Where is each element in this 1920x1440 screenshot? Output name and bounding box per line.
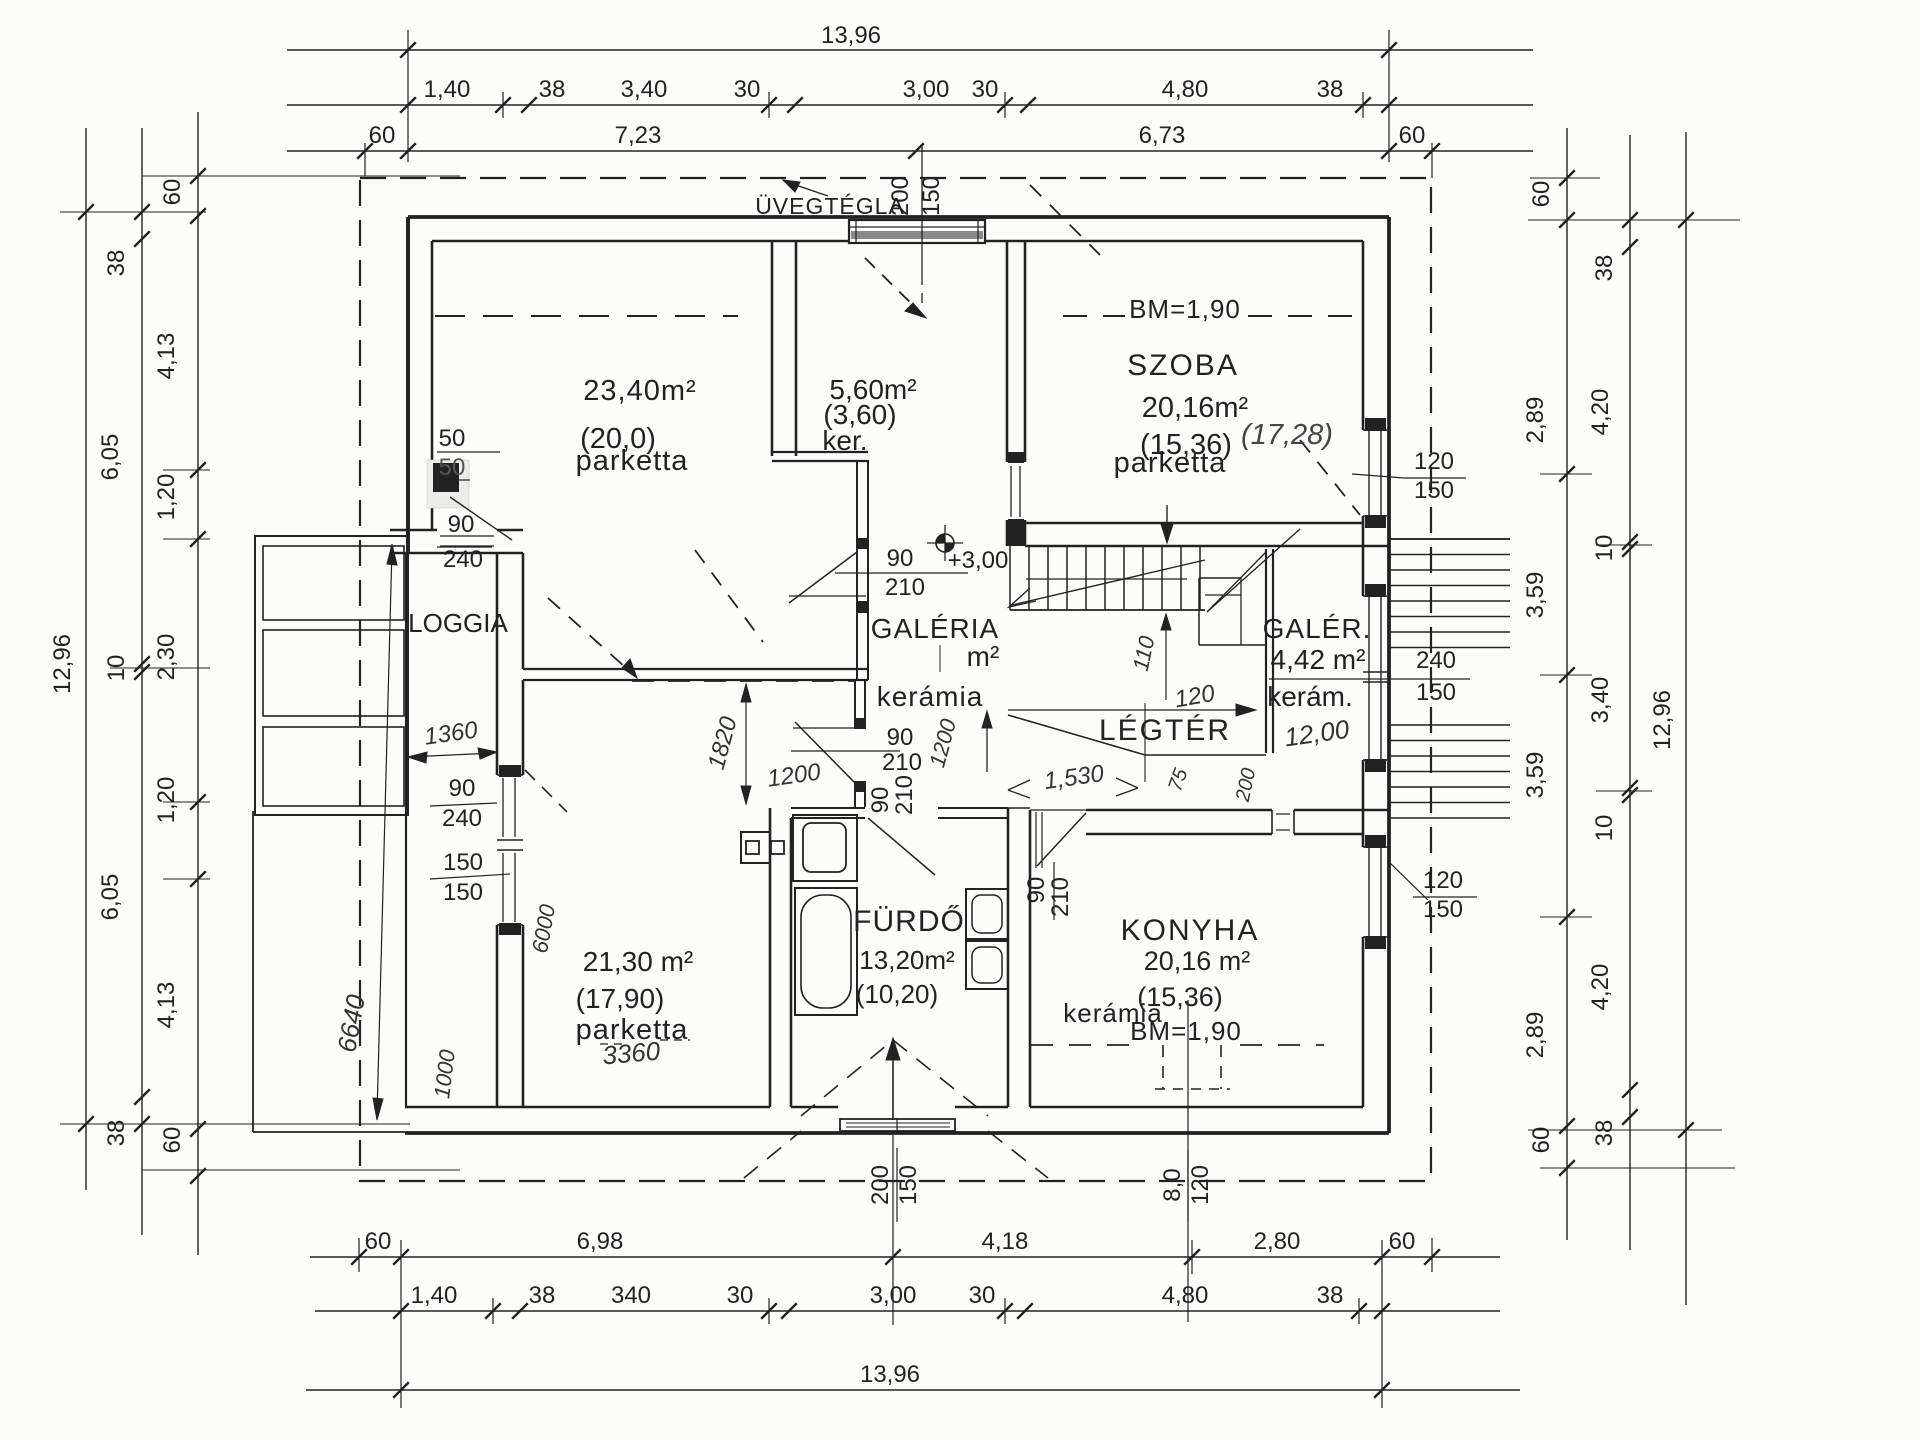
svg-text:1,40: 1,40 (411, 1282, 458, 1309)
dashed bm line szoba (1063, 315, 1352, 317)
konyha west wall (1008, 808, 1030, 1107)
svg-text:6,05: 6,05 (97, 434, 124, 481)
right chain 60/2,89/3,59/3,59/2,89/60 (1522, 128, 1575, 1240)
svg-text:4,20: 4,20 (1587, 964, 1614, 1011)
svg-text:60: 60 (1389, 1228, 1416, 1255)
svg-text:7,23: 7,23 (615, 122, 662, 149)
corridor west wall (772, 241, 868, 461)
door swing galeria lower (791, 722, 900, 785)
svg-text:3,59: 3,59 (1522, 572, 1549, 619)
uvegtegla label (755, 180, 905, 219)
svg-text:kerám.: kerám. (1267, 681, 1353, 712)
svg-text:3,40: 3,40 (1587, 677, 1614, 724)
svg-text:13,96: 13,96 (821, 22, 881, 49)
label 150/150 room21 window (430, 849, 510, 906)
svg-text:3,59: 3,59 (1522, 752, 1549, 799)
konyha door swing (1036, 812, 1086, 868)
svg-text:3,00: 3,00 (903, 76, 950, 103)
svg-text:4,18: 4,18 (982, 1228, 1029, 1255)
door 90/240 loggia wall (503, 778, 515, 837)
svg-text:150: 150 (1423, 896, 1463, 923)
entrance arrow (886, 1038, 900, 1120)
svg-text:ker.: ker. (822, 425, 867, 456)
hw 3360 (600, 1036, 690, 1071)
svg-text:13,96: 13,96 (860, 1361, 920, 1388)
svg-text:210: 210 (885, 574, 925, 601)
glass block window uvegtegla (849, 220, 985, 243)
svg-text:150: 150 (895, 1165, 922, 1205)
svg-text:90: 90 (449, 775, 476, 802)
svg-text:m²: m² (967, 641, 1000, 672)
hw 110 stairs (1128, 614, 1171, 700)
svg-text:3360: 3360 (601, 1036, 662, 1071)
svg-text:150: 150 (443, 849, 483, 876)
svg-text:2,30: 2,30 (153, 634, 180, 681)
legter opening lines (1008, 703, 1266, 782)
svg-text:150: 150 (918, 176, 945, 216)
svg-text:SZOBA: SZOBA (1127, 349, 1239, 382)
entrance door threshold (840, 1119, 955, 1131)
svg-text:240: 240 (443, 546, 483, 573)
svg-text:1,20: 1,20 (153, 474, 180, 521)
galeria east rail (1266, 549, 1273, 753)
loggia planter boxes (255, 536, 408, 815)
svg-text:30: 30 (727, 1282, 754, 1309)
svg-text:GALÉR.: GALÉR. (1263, 613, 1372, 644)
label 90/210 konyha door (1023, 862, 1074, 920)
window 150/150 loggia wall (503, 853, 515, 922)
svg-text:20,16m²: 20,16m² (1142, 392, 1249, 424)
svg-text:340: 340 (611, 1282, 651, 1309)
outer wall left upper (408, 217, 432, 553)
svg-text:38: 38 (103, 250, 130, 277)
svg-text:2,89: 2,89 (1522, 1012, 1549, 1059)
svg-text:LOGGIA: LOGGIA (408, 608, 508, 638)
svg-text:210: 210 (891, 775, 918, 815)
galeria labels (871, 613, 1000, 712)
svg-text:200: 200 (867, 1165, 894, 1205)
svg-text:6,98: 6,98 (577, 1228, 624, 1255)
svg-text:60: 60 (159, 1127, 186, 1154)
svg-text:150: 150 (443, 879, 483, 906)
hw arrow galeria (982, 711, 992, 772)
bottom dimension row detail (315, 1282, 1500, 1324)
konyha north wall (1030, 810, 1389, 834)
dashed diag room21 door (525, 770, 567, 812)
svg-text:2,89: 2,89 (1522, 397, 1549, 444)
svg-text:KONYHA: KONYHA (1121, 914, 1260, 947)
svg-text:kerámia: kerámia (877, 681, 984, 712)
svg-text:6,05: 6,05 (97, 874, 124, 921)
label 120/150 window top right (1352, 448, 1466, 504)
leader line konyha window (1187, 1000, 1189, 1322)
svg-text:150: 150 (1414, 477, 1454, 504)
hw 1360 (408, 716, 497, 763)
dashed diag szoba bottom (1300, 440, 1360, 515)
loggia door swing (450, 497, 512, 540)
svg-text:BM=1,90: BM=1,90 (1130, 1016, 1242, 1046)
svg-text:60: 60 (1399, 122, 1426, 149)
stair treads (1010, 546, 1205, 610)
galer labels right (1263, 613, 1372, 712)
loggia top wall (390, 530, 523, 553)
dashed diag room23 upper (695, 550, 763, 642)
svg-text:30: 30 (972, 76, 999, 103)
svg-text:(17,28): (17,28) (1241, 419, 1333, 451)
svg-text:38: 38 (1317, 76, 1344, 103)
hw 1550 (1008, 760, 1138, 798)
left chain 12,96 (49, 128, 94, 1190)
svg-text:60: 60 (159, 179, 186, 206)
svg-text:1,40: 1,40 (424, 76, 471, 103)
flue labels 50/50 (437, 425, 500, 481)
label 80/120 konyha bottom (1159, 1150, 1214, 1222)
svg-text:240: 240 (1416, 647, 1456, 674)
svg-text:21,30 m²: 21,30 m² (583, 946, 694, 977)
svg-text:60: 60 (1528, 181, 1555, 208)
bath north wall (791, 808, 1008, 818)
szoba labels (1114, 294, 1333, 479)
outer wall bottom (405, 1107, 1389, 1133)
svg-text:4,42 m²: 4,42 m² (1271, 644, 1366, 675)
galeria west wall upper (856, 460, 869, 680)
top dimension row 13,96 (287, 22, 1533, 162)
svg-text:2,80: 2,80 (1254, 1228, 1301, 1255)
stair winder (1199, 529, 1300, 645)
svg-text:4,20: 4,20 (1587, 389, 1614, 436)
right chain 12,96 (1649, 132, 1694, 1305)
door swing galeria upper (789, 552, 968, 603)
eaves dashed outline (360, 178, 1431, 1181)
svg-text:4,80: 4,80 (1162, 1282, 1209, 1309)
svg-text:240: 240 (442, 805, 482, 832)
label 90/240 room21 door (430, 775, 497, 832)
svg-text:90: 90 (448, 511, 475, 538)
svg-text:38: 38 (1317, 1282, 1344, 1309)
svg-text:GALÉRIA: GALÉRIA (871, 613, 999, 644)
furdo labels (853, 905, 965, 1009)
konyha labels (1063, 914, 1259, 1046)
svg-text:ÜVEGTÉGLA: ÜVEGTÉGLA (755, 193, 905, 219)
svg-text:60: 60 (1528, 1127, 1555, 1154)
svg-text:90: 90 (1023, 877, 1050, 904)
svg-text:3,40: 3,40 (621, 76, 668, 103)
top dimension row 60/7,23/6,73/60 (287, 122, 1533, 178)
label 240/150 window right (1269, 647, 1470, 706)
svg-text:120: 120 (1187, 1165, 1214, 1205)
svg-text:10: 10 (1591, 535, 1618, 562)
dashed diag room23 (548, 598, 637, 678)
label 90/210 galeria upper door (885, 545, 925, 601)
uvegtegla 200/150 (887, 145, 945, 310)
sink 1 (966, 889, 1008, 939)
label 90/240 loggia door top (437, 511, 492, 573)
svg-text:10: 10 (1591, 815, 1618, 842)
corridor labels (822, 374, 916, 456)
svg-text:23,40m²: 23,40m² (583, 375, 696, 407)
left extension lines (60, 176, 460, 1170)
dashed diag corridor (865, 258, 926, 318)
hw 120 legter (1008, 680, 1256, 716)
hw 1820 (703, 684, 751, 804)
svg-text:150: 150 (1416, 679, 1456, 706)
outer wall top (408, 217, 1389, 241)
window 120/150 konyha right (1363, 835, 1389, 949)
svg-text:210: 210 (1047, 877, 1074, 917)
svg-text:4,13: 4,13 (153, 982, 180, 1029)
svg-text:LÉGTÉR: LÉGTÉR (1099, 714, 1231, 747)
svg-text:38: 38 (1591, 255, 1618, 282)
svg-text:(17,90): (17,90) (576, 983, 665, 1014)
szoba stair down arrow (1161, 505, 1173, 543)
svg-text:parketta: parketta (1114, 447, 1227, 479)
bathtub (795, 888, 857, 1015)
svg-text:50: 50 (439, 425, 466, 452)
room 21,30 labels (576, 946, 694, 1046)
svg-text:210: 210 (882, 749, 922, 776)
label 90/210 galeria lower door (867, 724, 922, 815)
bottom dimension row 60/6,98/4,18/2,80/60 (310, 1228, 1500, 1272)
svg-text:120: 120 (1414, 448, 1454, 475)
svg-text:38: 38 (1591, 1120, 1618, 1147)
window 240/150 right (1363, 584, 1389, 772)
svg-text:+3,00: +3,00 (948, 547, 1009, 574)
flue 50x50 (427, 460, 469, 508)
room 23,40 labels (576, 375, 697, 477)
partition room23/room21 (523, 669, 868, 680)
loggia door 90/240 (440, 536, 494, 546)
svg-text:FÜRDŐ: FÜRDŐ (853, 905, 965, 938)
galeria west wall lower (854, 680, 866, 807)
label 120/150 konyha right (1389, 862, 1477, 923)
dashed ridge room23 (435, 315, 738, 317)
right extension lines (1528, 178, 1740, 1168)
exterior stairs right (1389, 539, 1510, 818)
window 120/150 top right (1363, 418, 1389, 528)
konyha bm dashed (1031, 1045, 1324, 1089)
svg-text:50: 50 (439, 454, 466, 481)
bath door swing (868, 818, 935, 875)
left chain 60/4,13/1,20/2,30/1,20/4,13/60 (153, 112, 206, 1255)
loggia/room wall (497, 553, 523, 1107)
svg-text:1,20: 1,20 (153, 777, 180, 824)
wc tank (741, 832, 784, 863)
svg-text:4,80: 4,80 (1162, 76, 1209, 103)
svg-text:200: 200 (887, 176, 914, 216)
top dimension row detail (287, 76, 1533, 118)
svg-text:BM=1,90: BM=1,90 (1129, 294, 1241, 324)
svg-text:120: 120 (1423, 867, 1463, 894)
bottom dimension row 13,96 (306, 1240, 1520, 1408)
left chain 38/6,05/10/6,05/38 (97, 128, 150, 1235)
svg-text:13,20m²: 13,20m² (859, 945, 955, 975)
svg-text:30: 30 (969, 1282, 996, 1309)
svg-text:90: 90 (887, 724, 914, 751)
right chain 38/4,20/10/3,40/10/4,20/38 (1587, 135, 1638, 1250)
svg-text:parketta: parketta (576, 445, 689, 477)
dashed bm line partition (632, 680, 855, 682)
svg-text:90: 90 (887, 545, 914, 572)
corridor/szoba wall (1007, 241, 1025, 546)
svg-text:12,96: 12,96 (1649, 690, 1676, 750)
left terrace outline (253, 811, 405, 1132)
hw 6640 (331, 544, 397, 1120)
szoba floor wall (1007, 523, 1389, 546)
entrance door swing dashes (744, 1040, 1048, 1178)
svg-text:4,13: 4,13 (153, 333, 180, 380)
bath west wall (770, 808, 791, 1107)
dashed diag szoba left (1030, 185, 1100, 255)
svg-text:8,0: 8,0 (1159, 1168, 1186, 1201)
svg-text:12,96: 12,96 (49, 634, 76, 694)
svg-text:60: 60 (369, 122, 396, 149)
svg-text:30: 30 (734, 76, 761, 103)
svg-text:38: 38 (529, 1282, 556, 1309)
svg-text:6,73: 6,73 (1139, 122, 1186, 149)
sink 2 (966, 941, 1008, 989)
svg-text:(10,20): (10,20) (856, 979, 938, 1009)
stair up arrow (1009, 560, 1205, 607)
label 200/150 entrance (867, 1148, 922, 1222)
wc (793, 815, 857, 881)
svg-text:90: 90 (867, 787, 894, 814)
level marker +3,00 (927, 525, 963, 561)
svg-text:38: 38 (539, 76, 566, 103)
svg-text:20,16 m²: 20,16 m² (1144, 946, 1251, 976)
loggia west parapet (405, 553, 407, 1107)
leader line entrance door (892, 1135, 894, 1325)
outer wall right (1363, 217, 1389, 1133)
svg-text:60: 60 (365, 1228, 392, 1255)
